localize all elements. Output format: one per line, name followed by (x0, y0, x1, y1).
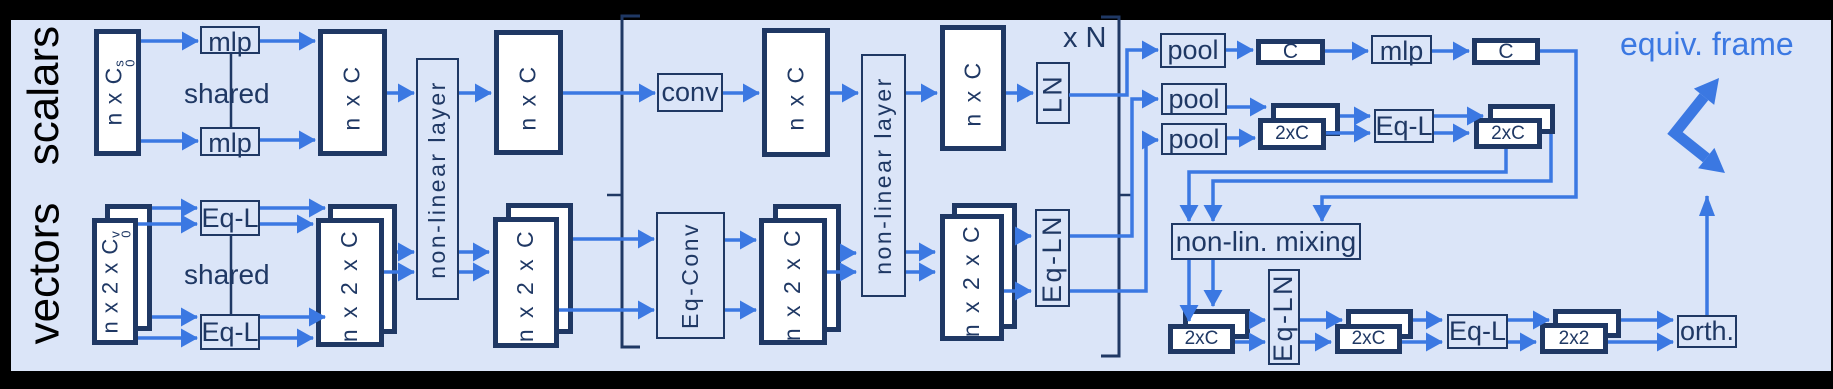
shared connector (mlp) (230, 54, 233, 127)
vector box n x 2 x C (4) back (952, 203, 1017, 329)
wire eqln1-to-pool2 (1070, 99, 1158, 236)
wire mixing-to-2xc3f (1187, 260, 1191, 321)
wire eql2-to-v1b (260, 315, 325, 319)
right bracket (1101, 17, 1119, 356)
vector box n x 2 x C (3) back (773, 204, 841, 332)
box n x C (1) (318, 29, 387, 156)
Eq-L box 4 (1447, 314, 1508, 349)
Eq-L box 3 (1374, 109, 1434, 143)
vector box n x 2 x C (3) (759, 218, 827, 345)
wire conv-to-nxc3 (723, 91, 759, 95)
non-linear layer box 1 (416, 58, 459, 300)
wire 2xc1f-to-eql3 (1326, 131, 1370, 135)
wire orth-to-frame (1705, 196, 1709, 315)
wire nll1-to-v2f (459, 270, 489, 274)
wire v4b-to-eqln1 (1017, 234, 1031, 238)
vector box n x 2 x C (2) (493, 217, 559, 348)
wire v3b-to-nll2 (841, 251, 856, 255)
Eq-L box 1 (200, 200, 260, 236)
left bracket (622, 16, 640, 347)
wire eqln1-to-pool3 (1070, 140, 1158, 291)
orth. box (1677, 315, 1737, 348)
Eq-L box 2 (200, 314, 260, 350)
wire 2xc4f-to-eql4 (1402, 340, 1442, 344)
wire 2xc2b-to-mixing (1213, 134, 1551, 221)
wire v2b-to-eqconv (573, 237, 654, 241)
wire eql1-to-v1b (260, 206, 325, 210)
wire nxc1-to-nll1 (387, 91, 414, 95)
mlp box 3 (1371, 35, 1432, 64)
wire c2-to-mixing (1322, 51, 1576, 221)
input box n x C0^s (94, 29, 141, 156)
scalars side label (18, 25, 69, 166)
wire v0f-to-eql2 (138, 336, 197, 340)
wire 2xc4b-to-eql4 (1413, 318, 1442, 322)
box n x C (3) (762, 28, 830, 157)
wire v1b-to-nll1 (397, 250, 414, 254)
wire s0-to-mlp2 (141, 139, 198, 143)
non-lin. mixing box (1171, 223, 1361, 260)
2xC box 4 back (1346, 309, 1413, 339)
wire eql4-to-2x2b (1508, 318, 1549, 322)
wire nll1-to-v2b (459, 250, 489, 254)
wire v0b-to-eql2 (152, 315, 197, 319)
wire v1f-to-nll1 (384, 270, 414, 274)
wire 2x2b-to-orth (1621, 318, 1673, 322)
wire eql3-to-2xc2b (1434, 114, 1483, 118)
wire pool1-to-c1 (1226, 48, 1253, 52)
wire v2f-to-eqconv (559, 308, 654, 312)
pool box 2 (1161, 83, 1227, 115)
box n x C (2) (494, 30, 563, 155)
pool box 1 (1160, 33, 1226, 68)
2x2 box back (1553, 309, 1621, 338)
2xC box 1 back (1271, 103, 1340, 136)
wire nxc2-to-conv (563, 91, 655, 95)
wire mlp1-to-nxc1 (260, 39, 315, 43)
wire 2xc2f-to-mixing (1189, 149, 1506, 221)
wire s0-to-mlp1 (141, 39, 198, 43)
wire v0b-to-eql1 (152, 206, 197, 210)
wire eql2-to-v1f (260, 336, 313, 340)
2xC box 3 back (1183, 309, 1250, 339)
wire ln-to-pool1 (1069, 50, 1158, 95)
box n x C (4) (940, 25, 1006, 151)
vector box n x 2 x C (1) back (328, 204, 397, 334)
wire nxc3-to-nll2 (830, 91, 858, 95)
vectors side label (19, 203, 70, 345)
wire pool2-to-2xc1b (1227, 105, 1266, 109)
wire 2xc3f-to-eqln2 (1235, 340, 1265, 344)
shared connector (Eq-L) (230, 236, 233, 314)
2xC box 2 (1474, 118, 1542, 149)
mlp box 1 (200, 26, 260, 54)
equiv. frame label (1620, 26, 1794, 63)
wire c1-to-mlp3 (1325, 49, 1368, 53)
wire nxc4-to-ln (1006, 91, 1033, 95)
wire mixing-to-2xc3b (1211, 260, 1215, 306)
wire eql3-to-2xc2f (1434, 131, 1469, 135)
2x2 box (1540, 323, 1608, 354)
Eq-Conv box (656, 212, 725, 339)
vector box n x 2 x C (2) back (506, 203, 573, 334)
wire eqln2-to-2xc4b (1300, 318, 1342, 322)
wire eqconv-to-v3f (725, 238, 756, 242)
wire pool3-to-2xc1f (1227, 136, 1255, 140)
wire nll2-to-v4f (906, 270, 935, 274)
C box 2 (1472, 38, 1540, 65)
x N label (1063, 22, 1107, 55)
C box 1 (1256, 39, 1325, 65)
input vector box n x 2 x C0^v (92, 218, 138, 345)
wire v0f-to-eql1 (138, 222, 197, 226)
shared label (vectors) (184, 259, 270, 291)
shared label (scalars) (184, 78, 270, 110)
wire mlp3-to-c2 (1432, 49, 1469, 53)
wire 2x2f-to-orth (1608, 340, 1673, 344)
equiv. frame zigzag arrow (1675, 97, 1706, 158)
pool box 3 (1161, 123, 1227, 155)
LN box (1036, 62, 1070, 124)
wire 2xc1b-to-eql3 (1340, 114, 1370, 118)
non-linear layer box 2 (861, 54, 906, 297)
wire eql1-to-v1f (260, 222, 313, 226)
vector box n x 2 x C (1) (316, 218, 384, 347)
wire 2xc3b-to-eqln2 (1250, 318, 1265, 322)
wire v3f-to-nll2 (827, 270, 856, 274)
wire eqconv-to-v3f2 (725, 308, 756, 312)
wire nll1-to-nxc2 (459, 91, 491, 95)
wire nll2-to-v4b (906, 250, 935, 254)
wire v4f-to-eqln1 (1004, 289, 1031, 293)
wire eql4-to-2x2f (1508, 340, 1536, 344)
vector box n x 2 x C (4) (940, 214, 1004, 341)
conv box (657, 73, 723, 112)
wire mlp2-to-nxc1 (260, 138, 315, 142)
2xC box 4 (1335, 324, 1402, 354)
Eq-LN box 1 (1035, 209, 1070, 307)
2xC box 2 back (1488, 104, 1555, 134)
Eq-LN box 2 (1268, 269, 1300, 365)
input vector box back (105, 204, 152, 331)
mlp box 2 (200, 127, 260, 156)
wire nll2-to-nxc4 (906, 91, 937, 95)
wire eqln2-to-2xc4f (1300, 340, 1331, 344)
2xC box 3 (1168, 324, 1235, 354)
2xC box 1 (1258, 118, 1326, 150)
